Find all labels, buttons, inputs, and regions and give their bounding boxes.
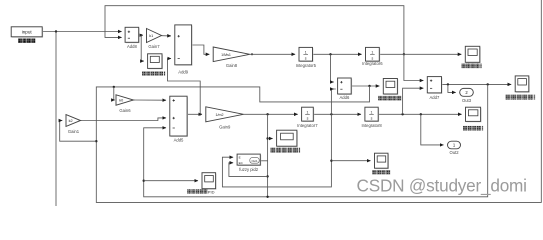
svg-text:Gain6: Gain6 (119, 108, 131, 113)
label: 主动力模糊PID (187, 189, 214, 194)
gain Gain8 (213, 47, 250, 68)
output port Out2 (448, 141, 461, 155)
svg-text:1/m2: 1/m2 (216, 113, 224, 117)
label: 车身加速度1 (271, 148, 301, 153)
wire: velocity vertical from Add6 minus down to E feed line (222, 89, 335, 187)
node: junction Out3 tap (447, 83, 449, 85)
wire: force feedback down along bottom to Add5 minus (144, 84, 488, 196)
wire: EC feedback loop under fuzzy block (229, 163, 268, 177)
wire: Add7 output to scope 悬架动挠度1 (442, 83, 512, 85)
node: junction on Integrator6 output (403, 53, 405, 55)
label: 车身位移1 (463, 126, 483, 131)
wire: Add5 output to Gain9 (187, 113, 202, 115)
svg-text:Gain1: Gain1 (68, 129, 80, 134)
svg-text:Add6: Add6 (340, 95, 350, 100)
node: junction on Add5 output (199, 113, 201, 115)
subsystem fuzzy pid2 (237, 154, 261, 172)
svg-text:Out1: Out1 (251, 159, 258, 163)
node: junction EC loop (266, 175, 268, 177)
svg-text:k2: k2 (69, 119, 73, 123)
wire: input to Add8 plus input (42, 31, 121, 33)
watermark CSDN (357, 175, 528, 195)
wire: top feedback from Integrator6 output junction to Add8 minus (105, 6, 404, 55)
svg-text:Add5: Add5 (174, 138, 184, 143)
sum block Add6 (338, 78, 353, 100)
node: junction on input line (55, 30, 57, 32)
svg-text:Gain8: Gain8 (226, 63, 238, 68)
sum block Add5 (170, 96, 188, 142)
wire: Gain1 output to Add5 second plus (81, 118, 167, 121)
wire: branch to scope 车身加速度1 (268, 138, 273, 140)
svg-text:Add9: Add9 (178, 70, 188, 75)
wire: Add6 output to scope 悬架动挠度 (351, 85, 379, 87)
svg-text:Gain9: Gain9 (219, 125, 231, 130)
svg-text:E: E (239, 156, 241, 160)
label: 路面信号 (18, 38, 35, 43)
wire: Add5 output up and over to Add9 minus (168, 59, 201, 115)
wire: acceleration tap down to scope and fuzzy column (267, 114, 269, 197)
svg-text:Integrator5: Integrator5 (296, 63, 317, 68)
node: junction force line join (266, 196, 268, 198)
svg-text:Add7: Add7 (430, 95, 440, 100)
sum block Add8 (125, 27, 140, 49)
svg-text:Integrator6: Integrator6 (362, 61, 383, 66)
svg-text:1: 1 (307, 111, 309, 115)
svg-text:k0: k0 (119, 99, 123, 103)
svg-text:Integrator7: Integrator7 (297, 123, 318, 128)
wire: branch down to Gain6 input (114, 87, 115, 100)
label: 轮胎位移1 (462, 64, 482, 69)
svg-text:fuzzy pid2: fuzzy pid2 (239, 167, 259, 172)
node: junction velocity scope tap (330, 160, 332, 162)
node: junction velocity line crossing (330, 113, 332, 115)
label: 轮胎动变形1 (142, 71, 165, 75)
wire: Integrator5 junction down to Add6 plus (331, 54, 334, 82)
wire: wheel displacement down to Add7 plus (404, 54, 424, 80)
svg-text:k1: k1 (149, 34, 153, 38)
wire: tap down to Out2 (421, 114, 444, 145)
wire: Integrator5 output to Integrator6 (313, 53, 362, 55)
wire: branch to scope 主动力模糊PID (144, 180, 198, 182)
node: junction scope 主动力模糊PID tap (143, 180, 145, 182)
node: junction body displacement tap 1 (401, 113, 403, 115)
svg-text:1: 1 (371, 51, 373, 55)
integrator Integrator6 (362, 47, 383, 66)
scope 车身位移1 (466, 107, 482, 122)
svg-text:input: input (22, 30, 33, 35)
svg-text:CSDN @studyer_domi: CSDN @studyer_domi (357, 175, 528, 195)
wire: Gain6 output to Add5 first plus (134, 99, 167, 101)
gain Gain6 (116, 95, 134, 113)
sum block Add9 (175, 25, 193, 75)
svg-text:s: s (307, 116, 309, 120)
block: input source (11, 27, 43, 38)
svg-text:1: 1 (371, 111, 373, 115)
svg-text:Add8: Add8 (127, 44, 137, 49)
svg-text:1/Ms1: 1/Ms1 (221, 53, 231, 57)
wire: branch to scope 车身速度 (331, 160, 370, 162)
svg-text:Out2: Out2 (449, 150, 459, 155)
wire: Gain8 output to Integrator5 (250, 53, 295, 55)
node: junction for Gain6 branch (113, 86, 115, 88)
scope 轮胎动变形1 (148, 54, 163, 70)
node: junction after Add8 (140, 34, 142, 36)
wire: Add9 output step down to Gain8 (192, 45, 210, 54)
wire: Integrator7 output to Integrator8 (313, 113, 361, 115)
node: junction acceleration scope tap (266, 137, 268, 139)
svg-text:s: s (372, 56, 374, 60)
node: junction on Integrator5 output (329, 53, 331, 55)
node: junction for Gain1 branch (95, 140, 97, 142)
scope 悬架动挠度 (383, 79, 398, 95)
svg-text:Gain7: Gain7 (148, 44, 160, 49)
scope 悬架动挠度1 (515, 76, 529, 93)
svg-text:Integrator8: Integrator8 (361, 123, 382, 128)
wire: Integrator8 output to scope 车身位移1 (378, 113, 461, 115)
wire: Gain7 output to Add9 plus (162, 35, 171, 37)
svg-text:PID: PID (208, 189, 215, 194)
node: junction force feedback tap (487, 83, 489, 85)
gain Gain1 (66, 115, 81, 134)
scope 车身加速度1 (277, 130, 298, 147)
wire: branch to Gain1 input (60, 121, 97, 142)
scope 轮胎位移1 (465, 46, 480, 63)
wire: Gain9 output to Integrator7 (244, 113, 298, 115)
wire: Add8 output to Gain7 (139, 34, 143, 36)
wire: Add8 junction down to scope 轮胎动变形1 (141, 35, 144, 61)
output port Out3 (460, 88, 474, 103)
node: junction on Add6 output (368, 85, 370, 87)
wire: tap down to Out3 (448, 84, 456, 92)
svg-text:s: s (371, 116, 373, 120)
svg-text:1: 1 (305, 51, 307, 55)
svg-text:s: s (305, 56, 307, 60)
label: 悬架动挠度 (378, 96, 401, 101)
integrator Integrator7 (297, 107, 318, 128)
wire: tap up to Add7 minus (403, 88, 424, 114)
wire: Integrator6 output to scope 轮胎位移1 (379, 53, 461, 55)
wire: arrowhead into Add6 minus (331, 88, 333, 90)
wire: suspension deflection big loop left and around right edge (96, 0, 541, 202)
svg-text:Out3: Out3 (462, 98, 472, 103)
gain Gain9 (206, 107, 244, 130)
gain Gain7 (147, 29, 162, 50)
label: 悬架动挠度1 (506, 95, 536, 100)
integrator Integrator5 (296, 47, 317, 68)
sum block Add7 (427, 77, 442, 100)
wire: input junction down left side (clipped at bottom) (55, 32, 57, 207)
scope 车身速度 (375, 153, 389, 169)
node: junction acceleration tap (266, 113, 268, 115)
label: 车身速度 (372, 170, 390, 175)
wire: fuzzy pid2 output stub (260, 160, 267, 162)
node: junction at Gain8 output (251, 53, 253, 55)
node: junction body displacement tap 2 (420, 113, 422, 115)
integrator Integrator8 (361, 107, 382, 128)
scope 主动力模糊PID (202, 173, 217, 190)
